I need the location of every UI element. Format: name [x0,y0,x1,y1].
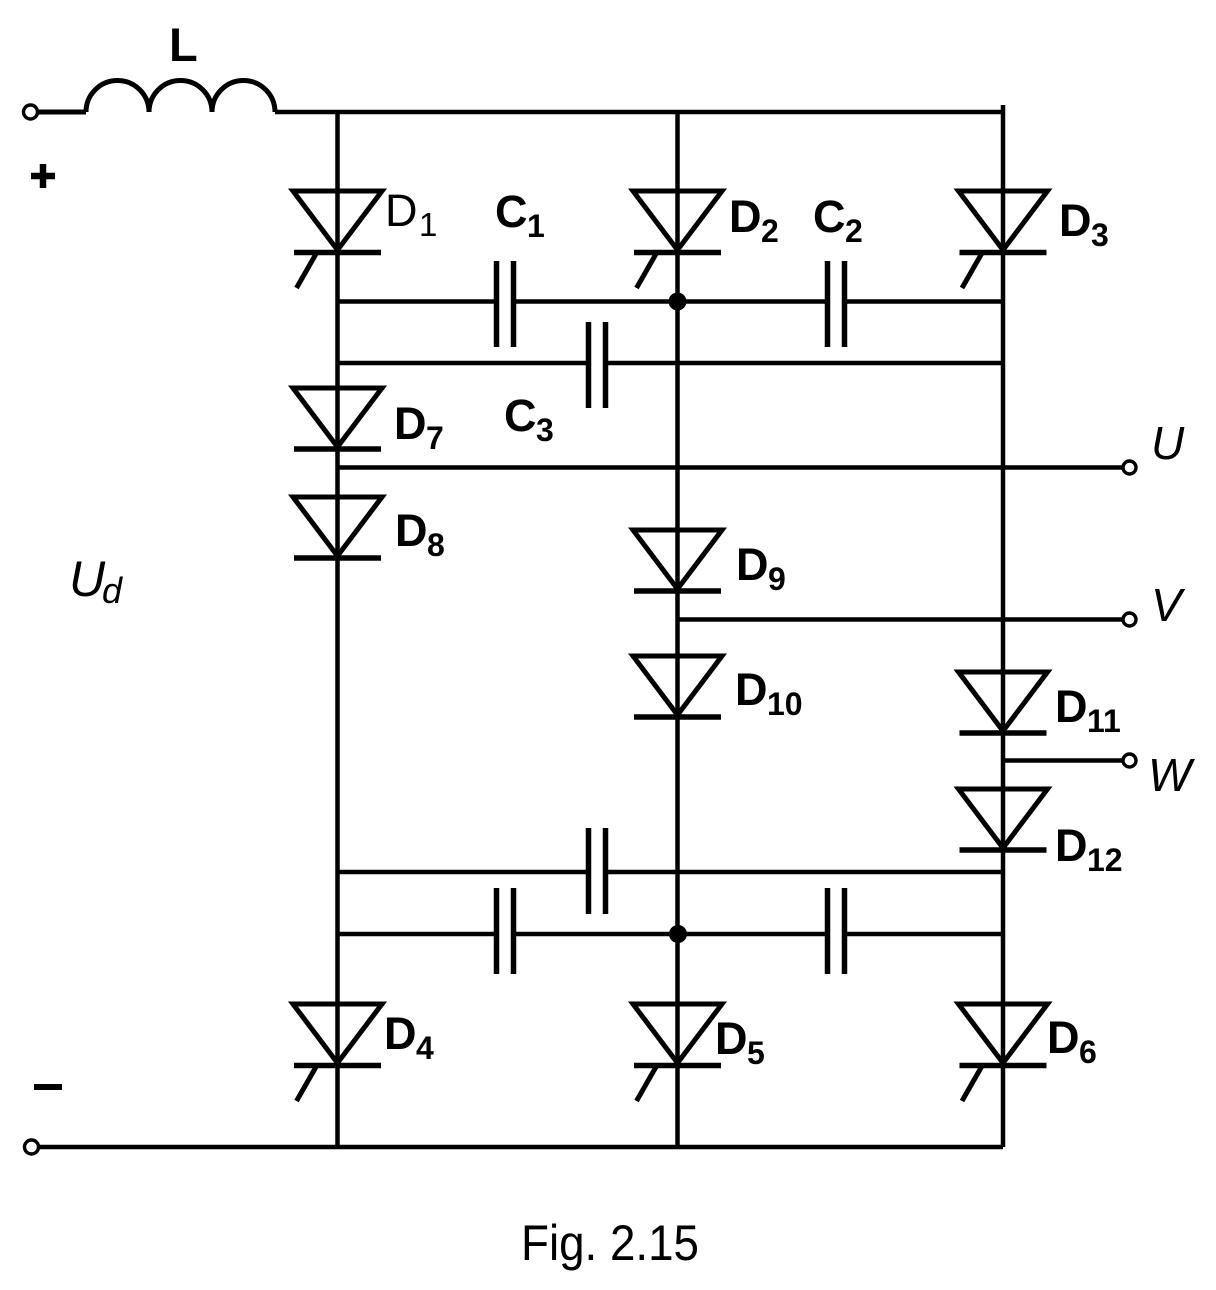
thyristor D4 [293,1004,434,1101]
svg-text:U: U [1151,417,1185,469]
inductor L [86,81,275,112]
svg-text:Fig. 2.15: Fig. 2.15 [521,1215,699,1271]
minus polarity [34,1084,62,1090]
svg-text:W: W [1148,749,1196,801]
svg-text:V: V [1151,579,1186,631]
diode D9 [633,530,786,597]
wire U row [338,465,1124,470]
diode D12 [959,789,1123,878]
svg-text:1: 1 [419,206,437,243]
thyristor D5 [633,1004,765,1101]
capacitor C3 [338,322,1004,448]
svg-text:D: D [394,398,427,449]
svg-text:6: 6 [1079,1034,1097,1070]
thyristor D1 [293,185,437,288]
diode D8 [293,497,445,563]
svg-text:D: D [385,185,418,236]
svg-text:4: 4 [416,1030,434,1066]
svg-text:D: D [384,1008,417,1059]
svg-text:2: 2 [845,213,863,249]
wire top rail [275,110,1003,115]
svg-text:D: D [1055,681,1088,732]
wire W row [1001,758,1123,763]
svg-text:11: 11 [1087,703,1121,739]
capacitor C1 [338,186,678,347]
svg-text:C: C [495,186,528,237]
svg-text:C: C [504,390,537,441]
svg-text:2: 2 [761,213,779,249]
wire bottom rail [39,1145,1003,1150]
svg-text:7: 7 [426,420,444,456]
capacitor (bottom centre, upper row) [338,828,1004,914]
label Ud [69,551,123,611]
node (C1-C2 junction) [669,293,687,311]
thyristor D6 [959,1004,1097,1101]
wire right bus [1001,105,1006,1147]
node (bottom capacitor junction) [669,925,687,943]
capacitor C2 [678,191,1004,347]
terminal W [1123,754,1136,767]
thyristor D3 [959,191,1109,288]
svg-text:5: 5 [747,1035,765,1071]
wire [38,110,86,115]
svg-text:10: 10 [767,686,803,722]
svg-text:3: 3 [1091,217,1109,253]
svg-text:D: D [1047,1012,1080,1063]
svg-text:D: D [729,191,762,242]
terminal U [1123,461,1136,474]
diode D7 [293,388,444,456]
wire middle bus [675,112,680,1147]
svg-text:D: D [395,505,428,556]
terminal V [1123,613,1136,626]
svg-text:8: 8 [427,527,445,563]
svg-text:D: D [715,1013,748,1064]
terminal - (DC minus input) [25,1140,39,1154]
wire V row [678,617,1124,622]
svg-text:D: D [1055,820,1088,871]
svg-text:9: 9 [768,561,786,597]
thyristor D2 [633,191,779,288]
svg-text:D: D [1059,195,1092,246]
svg-text:C: C [813,191,846,242]
capacitor (bottom left, lower row) [338,888,678,974]
svg-text:d: d [102,570,123,611]
diode D11 [959,672,1121,739]
svg-text:12: 12 [1087,842,1123,878]
svg-text:L: L [169,18,198,71]
terminal + (DC plus input) [24,105,38,119]
svg-text:D: D [735,664,768,715]
diode D10 [633,656,803,722]
svg-text:U: U [69,551,106,607]
wire left bus [335,112,340,1147]
capacitor (bottom right, lower row) [678,888,1004,974]
svg-text:3: 3 [536,412,554,448]
svg-text:D: D [736,539,769,590]
svg-text:1: 1 [527,208,545,244]
plus polarity [31,164,55,188]
